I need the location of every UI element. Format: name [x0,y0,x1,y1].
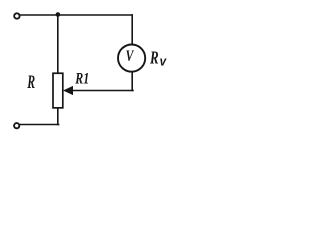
node junction [56,12,61,17]
wire top-right vertical [131,15,133,44]
wire top horizontal [20,14,132,16]
wire resistor bottom to corner [57,108,59,124]
terminal bottom-left [14,123,19,128]
wire bottom horizontal [20,124,59,126]
svg-text:R: R [27,73,36,93]
svg-text:v: v [160,54,168,69]
resistor R1 [53,73,63,108]
wire junction to resistor top [57,15,59,74]
wiper arrowhead [63,86,73,95]
wire voltmeter bottom to corner [131,73,133,91]
svg-text:R: R [149,48,158,68]
wire wiper shaft [72,90,134,92]
voltmeter U1 [118,45,145,72]
svg-text:R1: R1 [74,70,89,88]
terminal top-left [14,13,19,18]
